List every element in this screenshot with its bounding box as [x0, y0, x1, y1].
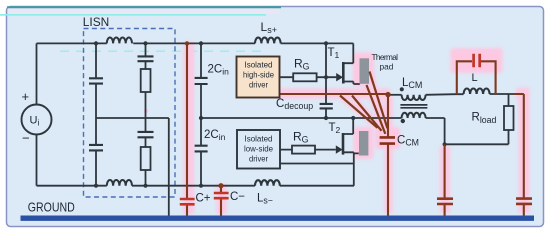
pink highlight CCM body — [375, 127, 400, 149]
capacitor A plates — [437, 199, 453, 204]
pink highlight tank — [451, 48, 503, 73]
pink highlight pad1 — [353, 53, 374, 87]
resistor RG high — [293, 73, 316, 81]
capacitor LISN C2 plates — [89, 145, 103, 151]
ground bus — [21, 215, 535, 220]
wire: high-side gate — [279, 76, 336, 78]
inductor LCM bottom winding — [402, 113, 426, 118]
polarity dot LCM top — [400, 87, 404, 91]
inductor LCM top winding — [402, 95, 426, 100]
svg-text:C−: C− — [230, 191, 245, 203]
voltage source Ui circle — [22, 105, 52, 135]
capacitor 2Cin bottom plates — [195, 146, 208, 152]
pink highlight C- path — [217, 184, 227, 214]
svg-text:C+: C+ — [196, 192, 211, 204]
LCM core bars — [400, 105, 427, 108]
capacitor C+ plates — [180, 199, 195, 204]
red wires — [187, 43, 524, 216]
wire: LISN mid rail — [96, 117, 169, 119]
LISN dashed box — [84, 29, 176, 198]
capacitor LISN RC2 cap — [145, 118, 147, 147]
wire: Ui top lead — [36, 43, 38, 104]
wire: LCM bottom right — [426, 118, 445, 144]
wire: load return — [445, 143, 509, 145]
wire: CCM vertical — [387, 95, 389, 216]
pink highlight right branch — [516, 93, 524, 213]
pink highlight fan glows — [340, 96, 380, 130]
svg-text:LISN: LISN — [83, 15, 110, 29]
transistor T2 — [344, 118, 353, 134]
wire: bottom rail — [37, 185, 355, 187]
pink dot artifact — [144, 109, 149, 114]
capacitor tank plates — [474, 54, 480, 68]
capacitor LISN C2 leads — [95, 118, 97, 186]
diode arrow T2 — [336, 145, 343, 153]
wire: mid rail — [201, 117, 402, 119]
parasitic path 3 — [367, 85, 386, 134]
resistor Rload — [504, 106, 514, 130]
wire: LISN ground drop — [168, 118, 170, 216]
cyan dashed artifact — [60, 50, 265, 52]
capacitor C- leads — [220, 186, 222, 216]
parasitic path 1 — [340, 96, 378, 128]
svg-text:Isolated: Isolated — [245, 60, 273, 70]
wire: driver return (red) — [279, 93, 388, 95]
red junction C- top — [218, 183, 223, 188]
lavender strip artifact — [8, 9, 280, 15]
capacitor B plates — [516, 199, 532, 204]
red junction node — [385, 92, 390, 97]
capacitor CCM plates — [380, 137, 395, 143]
driver box low-side — [237, 130, 280, 169]
tank loop — [457, 61, 496, 94]
inductor LISN L1 — [107, 38, 132, 44]
wire: low-side driver return — [280, 163, 354, 165]
svg-text:GROUND: GROUND — [28, 199, 75, 214]
parasitic path 4 — [370, 72, 388, 129]
wire: output right corner — [514, 94, 524, 216]
pink highlight pad2 — [354, 127, 374, 159]
resistor Rload leads — [508, 94, 510, 144]
thermal pad 2 — [359, 131, 368, 156]
capacitor C+ leads — [186, 43, 188, 216]
pink highlight CCM vertical — [384, 96, 393, 213]
transistor T1 — [345, 43, 354, 63]
inductor LISN L2 — [107, 180, 132, 186]
inductor Ls- — [255, 180, 280, 186]
inductor L — [464, 89, 490, 94]
resistor LISN R2 — [141, 147, 151, 170]
wire: Ui bottom lead — [36, 135, 38, 186]
driver box high-side — [237, 57, 280, 98]
svg-text:−: − — [22, 131, 30, 146]
svg-text:driver: driver — [249, 154, 268, 164]
wire: LCM top right to tank — [426, 93, 464, 96]
svg-text:L: L — [472, 72, 478, 84]
wire: low-side gate — [280, 149, 336, 151]
parasitic path 2 — [352, 96, 382, 131]
svg-text:pad: pad — [380, 62, 394, 72]
thermal pad 1 — [360, 58, 370, 84]
capacitor A lead — [444, 144, 446, 216]
svg-text:+: + — [22, 89, 30, 104]
cyan line artifact — [0, 14, 266, 16]
polarity dot LCM bottom — [401, 119, 405, 123]
diode arrow T1 — [336, 73, 343, 81]
capacitor Cdecoup leads — [325, 43, 327, 118]
svg-text:driver: driver — [249, 80, 268, 90]
capacitor C- plates — [214, 193, 229, 198]
svg-text:low-side: low-side — [244, 144, 273, 154]
capacitor LISN C1 plates — [89, 78, 103, 83]
capacitor 2Cin top plates — [195, 78, 208, 84]
resistor LISN R1 — [141, 69, 151, 92]
svg-text:Isolated: Isolated — [245, 134, 273, 144]
svg-text:Thermal: Thermal — [372, 52, 399, 62]
driver box texts — [243, 60, 274, 90]
capacitor LISN C1 leads — [95, 43, 97, 118]
pink highlight C+ path — [184, 42, 195, 214]
wire: top rail — [37, 42, 354, 44]
wire: after L — [490, 93, 514, 95]
wire: LCM top left — [390, 94, 402, 96]
teal top border segment artifact — [7, 6, 281, 8]
capacitor Cdecoup plates — [320, 104, 333, 109]
resistor RG low — [292, 146, 315, 154]
capacitor 2Cin top leads — [200, 43, 202, 118]
pink highlight driver return — [277, 89, 390, 99]
capacitor 2Cin bottom leads — [200, 118, 202, 186]
svg-text:high-side: high-side — [243, 70, 274, 80]
capacitor LISN RC1 cap — [145, 43, 147, 69]
inductor Ls+ — [255, 38, 281, 44]
red junction C+ top — [185, 41, 189, 45]
pink highlight output cap A — [440, 146, 450, 213]
